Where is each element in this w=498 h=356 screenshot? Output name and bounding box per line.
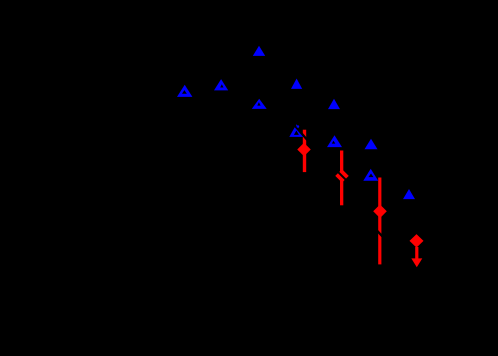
down-arrow shaft of D4 — [415, 247, 418, 260]
open blue triangle O5 — [327, 135, 342, 147]
remnant dot of O4 apex above cut — [297, 125, 300, 128]
open blue triangle O4 — [289, 124, 303, 137]
down-arrow head of D4 — [411, 258, 422, 267]
error bar of red diamond D2 — [340, 151, 343, 206]
filled blue triangle F5 — [403, 189, 415, 199]
red diamond D1 — [297, 143, 311, 157]
red diamond D3 — [373, 204, 387, 218]
filled blue triangle F4 — [365, 139, 378, 149]
open blue triangle O3 — [252, 99, 267, 109]
red diamond D4 (upper limit) — [410, 234, 424, 248]
error bar of red diamond D1 — [303, 130, 306, 172]
open blue triangle O2 — [214, 79, 228, 90]
filled blue triangle F2 — [291, 79, 302, 89]
open blue triangle O6 — [363, 169, 378, 181]
black overlay line segment C3 crossing D3 error bar — [374, 227, 385, 239]
black overlay line segment C2 crossing red diamond D2 — [334, 167, 352, 185]
filled blue triangle F3 — [328, 99, 340, 109]
error bar of red diamond D3 — [378, 178, 381, 265]
filled blue triangle F1 — [253, 46, 265, 56]
red diamond D2 — [335, 169, 349, 183]
black overlay line segment C1 crossing O4 and D1 error bar — [291, 121, 310, 142]
open blue triangle O1 — [177, 85, 192, 97]
